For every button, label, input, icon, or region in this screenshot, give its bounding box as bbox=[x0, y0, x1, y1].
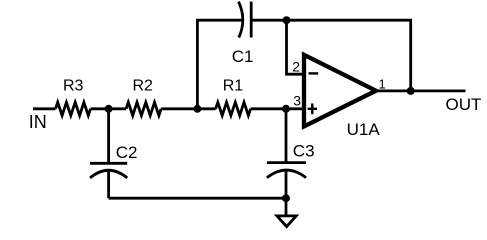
svg-text:OUT: OUT bbox=[446, 95, 482, 114]
svg-text:1: 1 bbox=[379, 77, 386, 92]
svg-text:IN: IN bbox=[29, 112, 47, 132]
svg-text:C3: C3 bbox=[293, 141, 315, 160]
svg-text:U1A: U1A bbox=[347, 120, 381, 139]
svg-text:C2: C2 bbox=[116, 143, 138, 162]
svg-text:R3: R3 bbox=[63, 77, 84, 94]
svg-text:R1: R1 bbox=[223, 77, 244, 94]
svg-text:2: 2 bbox=[292, 58, 300, 74]
svg-text:C1: C1 bbox=[232, 47, 254, 66]
svg-text:3: 3 bbox=[293, 93, 301, 109]
svg-text:R2: R2 bbox=[133, 78, 154, 95]
